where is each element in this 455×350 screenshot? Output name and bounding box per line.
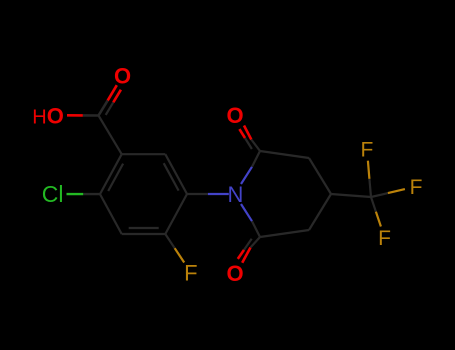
- svg-text:O: O: [227, 103, 244, 128]
- svg-text:Cl: Cl: [42, 181, 64, 207]
- svg-text:F: F: [378, 227, 391, 250]
- svg-text:F: F: [360, 139, 373, 162]
- svg-text:O: O: [227, 261, 244, 286]
- svg-text:F: F: [184, 260, 197, 285]
- svg-text:O: O: [114, 64, 131, 89]
- svg-text:F: F: [410, 176, 423, 199]
- svg-text:N: N: [227, 182, 243, 207]
- svg-text:HO: HO: [32, 103, 64, 128]
